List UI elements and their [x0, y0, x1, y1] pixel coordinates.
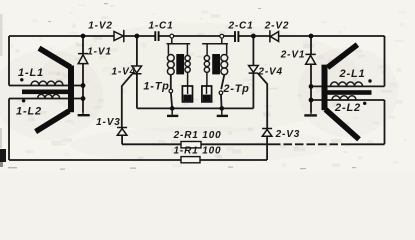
inductor 1-L2: [38, 94, 60, 98]
transformer 1-Tp core: [176, 54, 184, 74]
svg-text:1-R1 100: 1-R1 100: [174, 146, 222, 157]
wire: 1-V4 branch vertical x=137.8: [136, 36, 138, 108]
label 2-C1: [227, 21, 253, 32]
wire: 1-V4 gate lead to 1-V3: [122, 74, 132, 128]
svg-text:1-C1: 1-C1: [148, 20, 173, 31]
polarity dot 2-L2: [363, 102, 366, 105]
svg-text:2-R1 100: 2-R1 100: [173, 130, 222, 141]
scan blob bottom-left corner: [0, 149, 6, 167]
svg-text:2-L2: 2-L2: [334, 102, 361, 114]
junction 1-V1 anode: [81, 34, 86, 39]
junction 2-V1 anode: [309, 34, 314, 39]
polarity dot 1-L2: [22, 99, 25, 102]
headphone BF2: [202, 86, 212, 102]
wire: left screen box edges (1-L1 box): [9, 36, 83, 86]
diode 2-V2: [270, 30, 279, 42]
headphone BF1: [182, 86, 192, 102]
ground at 2-V1 branch: [304, 112, 317, 115]
svg-text:1-V1: 1-V1: [87, 46, 112, 57]
svg-text:2-V4: 2-V4: [257, 67, 283, 78]
inductor 2-L1: [331, 82, 363, 86]
transformer 1-Tp primary winding: [167, 44, 174, 75]
label 2-V1: [280, 49, 306, 60]
svg-text:2-V3: 2-V3: [275, 129, 301, 140]
junction 1-V4 anode: [135, 34, 140, 39]
transformer 2-Tp primary bottom lead: [221, 75, 224, 90]
transformer 2-Tp primary winding: [221, 44, 228, 75]
wire: 2-V4 branch vertical x=253.4: [252, 36, 254, 108]
transformer 2-Tp top yoke: [202, 38, 228, 44]
ground G1: [167, 108, 178, 116]
junction 1-L1 tap: [81, 83, 86, 88]
wire 2-Tp to ground bus: [220, 95, 223, 109]
capacitor 2-C1: [235, 31, 238, 42]
junction 1-L2 tap: [81, 96, 86, 101]
junction bus dot 2: [220, 106, 225, 111]
label 1-L1: [18, 67, 44, 79]
wire: 2-V4 gate lead to 2-V3: [258, 73, 267, 128]
svg-text:1-V4: 1-V4: [112, 66, 137, 77]
label 1-Tp: [143, 81, 169, 93]
paper grain texture: [4, 5, 407, 167]
label 1-V4: [112, 66, 137, 77]
junction 2-L2 tap: [309, 98, 314, 103]
ground at 1-V1 branch: [78, 112, 90, 115]
junction 2-V4 anode: [251, 34, 256, 39]
transformer 1-Tp primary bottom lead: [170, 75, 172, 89]
wire: top bus y=36: [9, 35, 385, 37]
wire 1-Tp to ground bus: [171, 93, 172, 109]
wire: left screen box edges (1-L2 box): [9, 99, 83, 161]
junction 2-L1 tap: [309, 84, 314, 89]
label 1-R1 100: [174, 146, 222, 157]
polarity dot 2-L1: [368, 79, 371, 82]
capacitor 1-C1: [155, 31, 158, 41]
label 2-V2: [264, 21, 290, 32]
inductor 1-L1: [31, 81, 63, 85]
svg-text:2-Тр: 2-Тр: [222, 83, 249, 95]
label 2-L1: [338, 68, 365, 80]
transformer 1-Tp secondary winding: [185, 44, 190, 86]
label 1-V3: [96, 117, 121, 128]
svg-text:2-V1: 2-V1: [280, 49, 306, 60]
label 1-L2: [16, 105, 42, 117]
transformer 1-Tp top yoke: [167, 38, 191, 44]
thyristor 2-V4: [249, 66, 259, 74]
inductor 2-L2: [332, 96, 356, 100]
resistor 1-R1: [181, 157, 200, 163]
diode 1-V1: [78, 54, 88, 64]
diode 2-V1: [305, 54, 315, 64]
scan specks: [8, 3, 356, 170]
wire: line A (2-R1 line): [122, 143, 385, 145]
junction bus dot 1: [170, 106, 175, 111]
label 2-R1 100: [173, 130, 222, 141]
label 2-Tp: [222, 83, 249, 95]
svg-text:1-V3: 1-V3: [96, 117, 121, 128]
terminal circle 1-Tp: [169, 89, 173, 93]
resistor 2-R1: [181, 142, 201, 148]
terminal circle at 2-C1 / 2-Tp: [220, 34, 224, 38]
svg-text:1-L1: 1-L1: [18, 67, 44, 79]
label 2-L2: [334, 102, 361, 114]
diode 2-V3: [262, 129, 272, 137]
wire: 2-V1 branch vertical x=311: [310, 36, 312, 112]
wire: 2-V3 to bottom lines: [266, 136, 268, 160]
label 2-V4: [257, 67, 283, 78]
thyristor 1-V4: [132, 66, 142, 74]
wire: 1-V3 to bottom line A: [121, 135, 123, 144]
svg-text:1-Тр: 1-Тр: [143, 81, 169, 93]
label 2-V3: [275, 129, 301, 140]
ferrite rod right (magnetic antenna): [325, 45, 372, 140]
wire: 1-V1 branch vertical x=83: [82, 36, 84, 112]
wire: bottom line to 1-R1: [9, 159, 267, 161]
label 1-C1: [148, 20, 173, 31]
label 1-V1: [87, 46, 112, 57]
svg-text:2-V2: 2-V2: [264, 21, 290, 32]
scan smudge left edge: [0, 14, 3, 148]
ferrite rod left (magnetic antenna): [22, 48, 71, 131]
svg-text:2-L1: 2-L1: [338, 68, 365, 80]
label 1-V2: [88, 21, 113, 32]
transformer 2-Tp secondary winding: [204, 44, 209, 86]
polarity dot 1-L1: [20, 78, 23, 81]
transformer 2-Tp core: [212, 54, 220, 74]
wire: right screen box (2-L2 box): [311, 100, 385, 144]
terminal circle 2-Tp: [219, 91, 223, 95]
ground G2: [217, 108, 228, 116]
wire: right screen box (2-L1 box): [311, 36, 385, 86]
svg-text:1-L2: 1-L2: [16, 105, 42, 117]
diode 1-V3: [117, 128, 127, 136]
svg-text:1-V2: 1-V2: [88, 21, 113, 32]
wire: cathode bus of thyristors y=108.4: [137, 107, 254, 109]
svg-text:2-C1: 2-C1: [227, 21, 253, 32]
terminal circle at 1-C1 / 1-Tp: [170, 34, 174, 38]
diode 1-V2: [114, 30, 124, 42]
